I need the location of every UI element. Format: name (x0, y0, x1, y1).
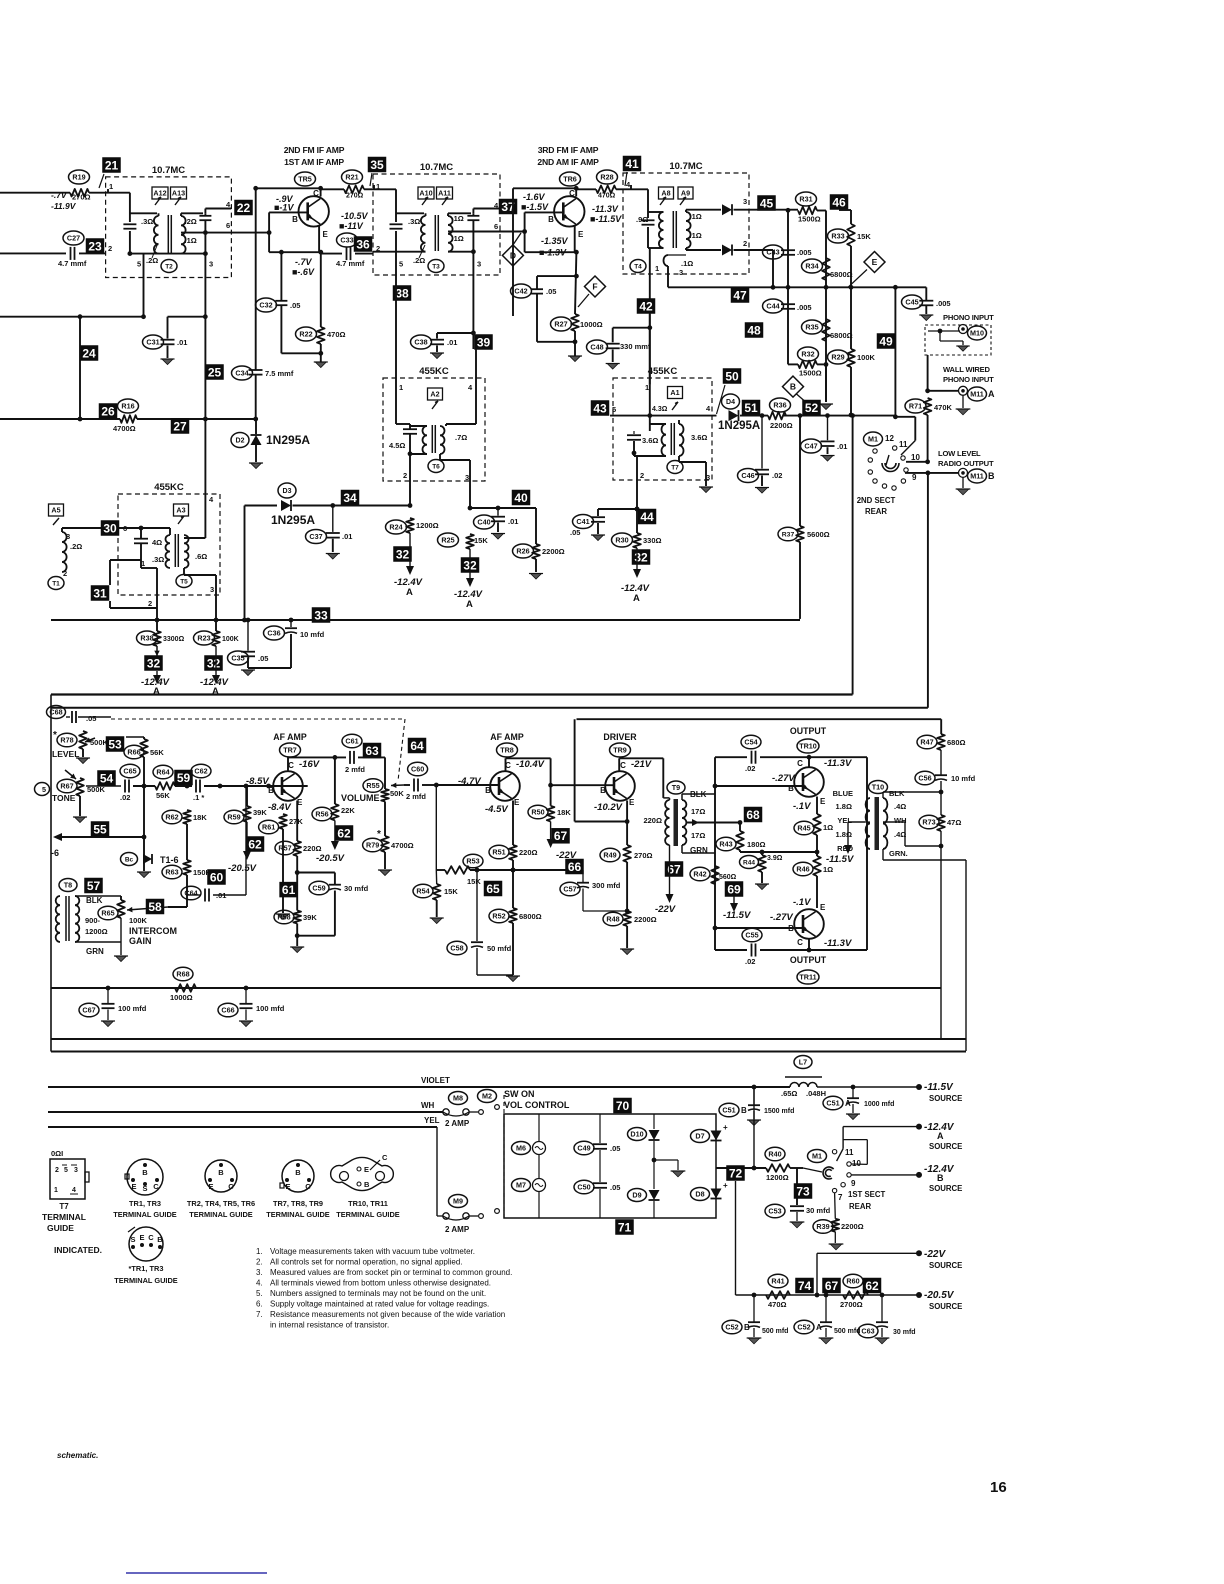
svg-text:SW ON: SW ON (504, 1089, 535, 1099)
svg-text:B: B (157, 1235, 163, 1244)
ground (250, 463, 261, 469)
svg-text:R64: R64 (156, 768, 169, 777)
svg-text:500 mfd: 500 mfd (834, 1328, 860, 1335)
collector wire (505, 758, 507, 771)
wire (965, 860, 967, 1051)
svg-text:■-1.3V: ■-1.3V (539, 248, 567, 258)
transformer label T2 (161, 260, 177, 273)
rectifier box (504, 1114, 716, 1218)
wire vertical x80 (79, 317, 81, 419)
svg-text:10 mfd: 10 mfd (951, 774, 976, 783)
svg-text:-.1V: -.1V (793, 801, 811, 812)
svg-text:TR10, TR11: TR10, TR11 (348, 1199, 388, 1208)
svg-text:T1: T1 (52, 580, 60, 587)
svg-text:C37: C37 (309, 532, 322, 541)
svg-text:49: 49 (879, 334, 893, 348)
callout 53 (106, 736, 125, 752)
svg-text:39K: 39K (303, 913, 317, 922)
resistor R21 (344, 186, 364, 194)
svg-text:M11: M11 (970, 472, 984, 481)
ground (748, 1338, 760, 1344)
detector line 34 (245, 505, 278, 507)
wire (183, 568, 185, 575)
svg-text:GAIN: GAIN (129, 936, 152, 946)
svg-text:1N295A: 1N295A (271, 513, 315, 527)
svg-text:E: E (364, 1165, 369, 1174)
svg-text:R31: R31 (799, 195, 812, 204)
svg-text:2: 2 (148, 599, 152, 608)
svg-text:3RD FM IF AMP: 3RD FM IF AMP (538, 145, 599, 155)
svg-text:1000Ω: 1000Ω (580, 320, 603, 329)
wire (395, 231, 397, 252)
svg-text:30: 30 (103, 521, 117, 535)
svg-text:R38: R38 (140, 634, 153, 643)
svg-text:D9: D9 (632, 1191, 641, 1200)
ground (492, 534, 503, 540)
white line (48, 1111, 443, 1113)
svg-text:R49: R49 (603, 851, 616, 860)
svg-text:.1Ω: .1Ω (452, 214, 464, 223)
svg-text:18K: 18K (193, 813, 207, 822)
svg-text:S: S (142, 1184, 147, 1193)
wire (204, 213, 206, 216)
svg-text:A: A (466, 599, 473, 610)
wire C34 column (255, 188, 257, 370)
callout 30 (101, 520, 120, 536)
svg-text:58: 58 (148, 900, 162, 914)
svg-text:36: 36 (356, 237, 370, 251)
resistor R25 (466, 534, 474, 549)
capacitor C33 (346, 247, 348, 260)
svg-text:.05: .05 (610, 1144, 620, 1153)
ground (921, 315, 932, 321)
svg-text:500 mfd: 500 mfd (762, 1328, 788, 1335)
ground (958, 346, 968, 351)
svg-text:B: B (600, 786, 606, 795)
svg-text:TR9: TR9 (613, 746, 627, 755)
svg-text:1.8Ω: 1.8Ω (836, 830, 852, 839)
svg-text:1Ω: 1Ω (823, 865, 833, 874)
terminal guide TR10 TR11 (331, 1157, 394, 1190)
emitter wire TR9 (626, 801, 628, 822)
base network wire (269, 211, 308, 213)
transformer T9 (667, 781, 685, 794)
wire tertiary to 47 line (667, 271, 669, 287)
svg-text:32: 32 (207, 656, 221, 670)
wire (204, 233, 206, 254)
resistor R57 (293, 841, 301, 856)
callout 47 (731, 287, 750, 303)
AVC line (0, 418, 120, 420)
wire (435, 785, 437, 870)
resistor R60 (843, 1291, 868, 1299)
slug A1 (668, 387, 683, 399)
svg-text:R52: R52 (492, 912, 505, 921)
ground (700, 487, 711, 493)
callout 52 (802, 400, 821, 416)
wire to audio section (852, 416, 854, 695)
slug arrow (672, 402, 678, 410)
diode D3 (278, 483, 296, 498)
wire T2 pin6 to TR5 base (181, 232, 269, 234)
resistor R24 (406, 518, 414, 533)
svg-text:30 mfd: 30 mfd (344, 884, 369, 893)
svg-text:R48: R48 (606, 915, 619, 924)
svg-text:T1-6: T1-6 (160, 855, 179, 865)
emitter rail (575, 821, 628, 823)
wire to audio section (927, 473, 929, 708)
svg-text:-11.5V: -11.5V (826, 854, 854, 865)
resistor R19 (70, 189, 89, 197)
capacitor C36 (290, 620, 292, 627)
callout 48 (745, 322, 764, 338)
svg-text:T5: T5 (180, 578, 188, 585)
svg-text:C64: C64 (184, 889, 197, 898)
supply arrow -22V (550, 822, 552, 841)
base wire (715, 927, 802, 929)
svg-text:-21V: -21V (631, 759, 652, 770)
wire (175, 785, 192, 787)
svg-text:R61: R61 (262, 823, 275, 832)
svg-text:1ST SECT: 1ST SECT (848, 1190, 885, 1199)
svg-text:1N295A: 1N295A (718, 420, 760, 432)
switch wire contact 9 (905, 472, 958, 474)
svg-text:C50: C50 (577, 1183, 590, 1192)
svg-text:TR8: TR8 (500, 746, 514, 755)
svg-text:R19: R19 (72, 173, 85, 182)
svg-text:5: 5 (42, 785, 46, 794)
svg-text:38: 38 (395, 286, 409, 300)
audio section top rail (51, 693, 853, 695)
diode D7 (711, 1131, 722, 1141)
svg-text:C68: C68 (49, 708, 62, 717)
svg-text:-.1V: -.1V (793, 897, 811, 908)
collector wire (287, 757, 289, 771)
svg-text:schematic.: schematic. (57, 1451, 98, 1460)
svg-text:.65Ω: .65Ω (781, 1089, 797, 1098)
wire (255, 419, 257, 434)
callout 67 (551, 828, 570, 844)
svg-text:-.27V: -.27V (772, 773, 795, 784)
resistor R52 (509, 908, 517, 923)
svg-text:2700Ω: 2700Ω (840, 1300, 863, 1309)
collector rail (256, 187, 321, 189)
slug arrow (432, 401, 438, 409)
svg-text:All controls set for normal op: All controls set for normal operation, n… (270, 1258, 463, 1267)
capacitor C59 (329, 884, 341, 886)
svg-text:71: 71 (618, 1220, 632, 1234)
wire vertical x826 (825, 211, 827, 403)
svg-text:270Ω: 270Ω (346, 193, 364, 200)
svg-text:27K: 27K (289, 817, 303, 826)
wire (663, 797, 669, 799)
callout 32 (461, 557, 480, 573)
svg-text:.01: .01 (837, 442, 847, 451)
svg-text:15K: 15K (467, 877, 481, 886)
svg-text:1: 1 (399, 383, 403, 392)
svg-text:A8: A8 (661, 189, 670, 198)
svg-text:E: E (872, 257, 878, 267)
svg-text:C55: C55 (745, 931, 758, 940)
callout 71 (615, 1219, 634, 1235)
svg-text:C27: C27 (67, 234, 80, 243)
transformer T10 (869, 781, 888, 794)
resistor R16 (120, 415, 137, 423)
left edge slug A5 (49, 504, 64, 516)
svg-text:31: 31 (93, 586, 107, 600)
svg-text:1000Ω: 1000Ω (170, 993, 193, 1002)
svg-text:C: C (148, 1233, 154, 1242)
svg-text:0ΩI: 0ΩI (51, 1149, 63, 1158)
transformer label T6 (428, 460, 444, 473)
secondary coil T3 (448, 216, 453, 252)
svg-text:OUTPUT: OUTPUT (790, 726, 827, 736)
svg-text:T10: T10 (872, 783, 884, 792)
capacitor C55 (751, 944, 753, 957)
svg-text:C52: C52 (797, 1323, 810, 1332)
svg-text:B: B (744, 1323, 750, 1332)
tertiary coil tap (664, 255, 669, 266)
svg-text:A: A (406, 587, 413, 598)
ground (74, 817, 85, 823)
resistor R63 (183, 860, 191, 875)
svg-text:-.27V: -.27V (770, 912, 793, 923)
svg-text:R32: R32 (801, 350, 814, 359)
resistor R36 (768, 412, 786, 420)
svg-text:57: 57 (87, 879, 101, 893)
wire (734, 249, 774, 251)
core T2 (167, 215, 169, 253)
resistor R42 (711, 866, 719, 884)
svg-text:220Ω: 220Ω (519, 848, 538, 857)
left frame (50, 695, 52, 1052)
svg-text:.048H: .048H (806, 1089, 826, 1098)
svg-text:T7: T7 (59, 1202, 69, 1211)
svg-text:1500Ω: 1500Ω (799, 369, 822, 378)
svg-text:.01: .01 (508, 517, 518, 526)
svg-text:B: B (485, 786, 491, 795)
wire (448, 251, 473, 253)
supply arrow -20.5V (334, 820, 336, 842)
ground (431, 353, 442, 359)
svg-text:GUIDE: GUIDE (47, 1223, 74, 1233)
svg-text:TERMINAL GUIDE: TERMINAL GUIDE (114, 1276, 178, 1285)
svg-text:21: 21 (105, 158, 119, 172)
diode D8 (711, 1189, 722, 1199)
svg-text:1: 1 (645, 383, 649, 392)
callout 46 (830, 194, 849, 210)
wire (395, 252, 397, 286)
svg-text:B: B (218, 1168, 224, 1177)
diode ratio detector top (722, 204, 732, 215)
switch M2 (478, 1090, 497, 1103)
svg-text:B: B (292, 215, 298, 224)
svg-text:C: C (569, 189, 575, 198)
supply arrow -22V (669, 845, 671, 895)
svg-text:T7: T7 (671, 464, 679, 471)
transistor TR6 (554, 196, 584, 226)
resistor R45 (813, 814, 821, 835)
callout 35 (368, 157, 387, 173)
svg-text:R41: R41 (771, 1277, 784, 1286)
emitter wire (318, 226, 320, 253)
svg-text:5: 5 (137, 260, 141, 269)
svg-text:680Ω: 680Ω (947, 738, 966, 747)
transformer T2 10.7MC can (106, 177, 232, 278)
svg-text:2.: 2. (256, 1258, 263, 1267)
callout 44 (638, 509, 657, 525)
callout 32 (144, 655, 163, 671)
svg-text:.1Ω: .1Ω (681, 259, 693, 268)
svg-text:B: B (790, 382, 796, 392)
svg-text:10 mfd: 10 mfd (300, 630, 325, 639)
svg-text:AF AMP: AF AMP (273, 732, 307, 742)
svg-text:YEL: YEL (837, 816, 852, 825)
slug arrow (175, 197, 181, 205)
svg-text:■-1V: ■-1V (274, 203, 294, 213)
svg-text:47: 47 (733, 288, 747, 302)
diode D2 (231, 433, 249, 448)
svg-text:2 AMP: 2 AMP (445, 1119, 470, 1128)
capacitor C54 (751, 751, 753, 764)
capacitor C57 (582, 870, 584, 882)
svg-text:M1: M1 (812, 1152, 822, 1161)
callout 60 (207, 869, 226, 885)
wire (574, 719, 576, 821)
svg-text:C48: C48 (590, 343, 603, 352)
svg-text:E: E (514, 798, 520, 807)
svg-text:RADIO OUTPUT: RADIO OUTPUT (938, 459, 994, 468)
capacitor C41 (598, 508, 637, 510)
svg-text:RED: RED (837, 844, 853, 853)
slug arrow (53, 518, 59, 525)
resistor R37 (796, 526, 804, 542)
wire T3 pin6 to TR6 base (448, 231, 525, 233)
transformer T5 455KC can (118, 494, 220, 595)
wire (649, 385, 651, 431)
svg-text:Supply voltage maintained at: Supply voltage maintained at rated value… (270, 1300, 489, 1309)
svg-text:1500Ω: 1500Ω (798, 215, 821, 224)
svg-text:.005: .005 (797, 248, 812, 257)
svg-text:C42: C42 (514, 287, 527, 296)
svg-text:B: B (741, 1106, 747, 1115)
svg-text:6: 6 (494, 222, 498, 231)
supply arrow -12.4V A (469, 549, 471, 579)
svg-text:.05: .05 (610, 1183, 620, 1192)
svg-text:C45: C45 (905, 298, 918, 307)
dashed switch link (503, 1095, 505, 1218)
svg-text:All terminals viewed from bott: All terminals viewed from bottom unless … (270, 1279, 491, 1288)
wire (126, 736, 144, 738)
svg-text:BLK: BLK (86, 896, 103, 905)
ground (379, 870, 390, 876)
svg-text:1200Ω: 1200Ω (766, 1173, 789, 1182)
svg-text:E: E (323, 230, 329, 239)
svg-text:64: 64 (410, 739, 424, 753)
svg-text:2: 2 (403, 471, 407, 480)
svg-text:2ND FM IF AMP: 2ND FM IF AMP (284, 145, 345, 155)
svg-text:C57: C57 (563, 885, 576, 894)
ground (957, 409, 969, 415)
svg-text:INDICATED.: INDICATED. (54, 1245, 102, 1255)
wire (61, 528, 63, 532)
svg-text:9: 9 (912, 473, 917, 482)
transistor TR6 designator (560, 172, 581, 186)
svg-text:C59: C59 (312, 884, 325, 893)
capacitor C50 (593, 1182, 607, 1184)
secondary mid tap (686, 822, 740, 824)
switch wiper line (886, 455, 889, 465)
svg-text:470Ω: 470Ω (598, 193, 616, 200)
svg-text:C38: C38 (414, 338, 427, 347)
ground (569, 356, 580, 362)
svg-text:B: B (548, 215, 554, 224)
primary coil T3 (421, 216, 426, 252)
svg-text:7.: 7. (256, 1310, 263, 1319)
transistor TR10 designator (797, 739, 819, 753)
callout 58 (146, 899, 165, 915)
wire (636, 456, 638, 460)
svg-text:C33: C33 (340, 236, 353, 245)
svg-text:.3Ω: .3Ω (408, 217, 420, 226)
svg-text:100K: 100K (857, 353, 876, 362)
svg-text:220Ω: 220Ω (643, 816, 662, 825)
speaker WH wire (883, 821, 905, 823)
svg-text:2: 2 (640, 471, 644, 480)
ground (748, 1120, 759, 1126)
resistor R30 (633, 533, 641, 548)
svg-text:455KC: 455KC (154, 482, 184, 493)
capacitor C27 (70, 247, 72, 260)
svg-text:VIOLET: VIOLET (421, 1076, 450, 1085)
svg-text:C65: C65 (123, 767, 136, 776)
svg-text:B: B (988, 471, 995, 481)
svg-text:42: 42 (639, 299, 653, 313)
wire (110, 559, 141, 561)
svg-text:R66: R66 (127, 748, 140, 757)
svg-text:455KC: 455KC (648, 366, 678, 377)
wire T3 pin5 down to T6 (395, 286, 397, 301)
capacitor T3 primary tuning (390, 223, 403, 225)
svg-text:.05: .05 (86, 714, 96, 723)
wire (374, 188, 396, 190)
callout 68 (744, 807, 763, 823)
svg-text:R25: R25 (441, 536, 454, 545)
svg-text:11: 11 (899, 440, 908, 449)
svg-text:56K: 56K (150, 748, 164, 757)
svg-text:TR6: TR6 (563, 175, 577, 184)
secondary coil T5 (184, 535, 189, 568)
svg-text:5: 5 (64, 1167, 68, 1174)
svg-text:C35: C35 (231, 654, 244, 663)
callout 33 (312, 607, 331, 623)
ground (822, 456, 833, 462)
resistor R35 (822, 319, 830, 341)
svg-text:C51: C51 (722, 1106, 735, 1115)
resistor R58 (293, 911, 301, 924)
diamond B (783, 376, 804, 397)
svg-text:.7Ω: .7Ω (455, 433, 467, 442)
ground (77, 758, 88, 764)
line 40 (470, 507, 536, 509)
svg-text:C49: C49 (577, 1144, 590, 1153)
svg-text:52: 52 (805, 401, 819, 415)
svg-text:.1Ω: .1Ω (452, 234, 464, 243)
resistor R56 (331, 804, 339, 820)
svg-text:A2: A2 (430, 390, 439, 399)
svg-text:E: E (820, 797, 826, 806)
svg-text:S: S (130, 1235, 135, 1244)
